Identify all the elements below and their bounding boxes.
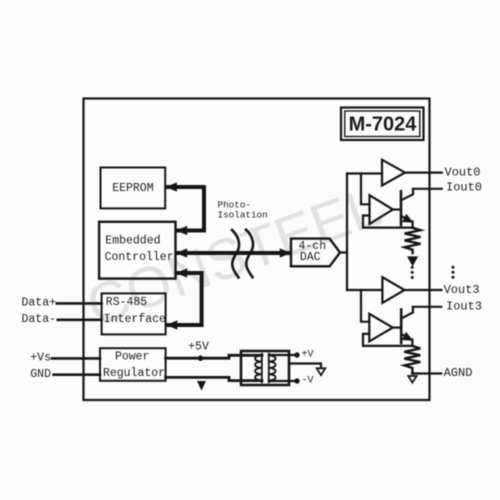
AGND wire <box>412 372 441 374</box>
svg-text:+5V: +5V <box>188 341 209 354</box>
svg-text:+Vs: +Vs <box>30 352 51 365</box>
svg-text:Embedded: Embedded <box>105 235 160 248</box>
-V terminal <box>294 378 299 383</box>
continuation dots under R0 <box>411 266 414 279</box>
center tap to analog ground <box>289 364 321 369</box>
transistor Q0 base bar <box>400 191 403 225</box>
svg-text:Regulator: Regulator <box>103 367 165 380</box>
DAC output rail <box>340 174 347 291</box>
Data+ label and wire <box>21 297 101 310</box>
core line left <box>261 354 263 383</box>
wire controller to RS-485 (bus) <box>166 268 202 329</box>
Q0 collector <box>401 189 413 201</box>
Q3 emitter with arrow <box>401 334 408 337</box>
ch0 current amp <box>370 195 394 224</box>
Q0 emitter with arrow <box>401 216 408 219</box>
ch0 input wire <box>347 172 382 174</box>
resistor R0 <box>405 228 421 253</box>
ch3 feedback wire <box>363 334 412 346</box>
svg-text:Isolation: Isolation <box>218 209 268 220</box>
ch3 amp to base wire <box>393 327 402 329</box>
svg-text:Interface: Interface <box>104 313 166 326</box>
isolation squiggle 1 <box>232 230 239 278</box>
transistor Q3 base bar <box>400 310 403 344</box>
core line right <box>268 354 270 383</box>
GND label and wire <box>30 368 100 381</box>
+Vs label and wire <box>30 352 100 365</box>
power wire return <box>166 377 262 380</box>
M-7024 label box <box>341 108 424 141</box>
RS-485 Interface box <box>102 293 166 334</box>
svg-text:Data-: Data- <box>21 313 56 326</box>
Data- label and wire <box>21 313 101 326</box>
svg-text:Power: Power <box>115 350 150 363</box>
ch3 current amp <box>369 314 392 342</box>
secondary leads <box>269 354 295 356</box>
Iout3 wire <box>413 306 441 308</box>
EEPROM box <box>101 168 166 209</box>
svg-text:Iout3: Iout3 <box>446 299 482 313</box>
primary winding <box>255 355 262 380</box>
ground arrow on return wire <box>197 381 206 391</box>
ch0 voltage buffer amp <box>382 160 405 186</box>
svg-text:-V: -V <box>302 375 314 386</box>
isolation squiggle 2 <box>246 230 253 278</box>
svg-text:GND: GND <box>30 368 51 381</box>
wire controller to DAC (bus) <box>176 248 292 257</box>
+V terminal <box>294 352 299 357</box>
Power Regulator box <box>100 348 166 381</box>
resistor R3 <box>404 346 420 374</box>
hollow ground arrow under R3 <box>408 376 416 383</box>
ch3 voltage buffer amp <box>382 277 404 303</box>
Q3 collector <box>401 307 413 319</box>
svg-text:AGND: AGND <box>444 366 473 380</box>
Embedded Controller box <box>99 222 175 279</box>
wire EEPROM to controller (bus) <box>165 182 204 235</box>
Vout3 wire <box>405 289 442 291</box>
ch0 tee down to current amp <box>361 174 370 205</box>
power wire +5V <box>166 355 262 358</box>
svg-text:Data+: Data+ <box>21 297 56 310</box>
svg-text:EEPROM: EEPROM <box>112 182 154 195</box>
svg-text:Vout0: Vout0 <box>445 165 481 179</box>
secondary winding <box>269 355 276 380</box>
svg-text:+V: +V <box>302 349 314 360</box>
svg-text:Controller: Controller <box>105 251 174 264</box>
svg-text:M-7024: M-7024 <box>349 114 418 136</box>
4-ch DAC block <box>291 239 340 267</box>
svg-text:DAC: DAC <box>300 251 321 264</box>
Photo-Isolation label <box>218 199 268 220</box>
ch3 input wire <box>347 289 382 291</box>
ch0 feedback wire <box>363 216 413 228</box>
frame border <box>84 99 430 401</box>
down arrow under R0 <box>408 257 416 265</box>
DC-DC transformer box <box>241 351 295 385</box>
junction dot +5V <box>198 355 204 361</box>
svg-text:Iout0: Iout0 <box>446 181 482 195</box>
Vout0 wire <box>405 172 442 174</box>
ch3 tee down to current amp <box>361 290 369 322</box>
svg-text:Vout3: Vout3 <box>444 283 480 297</box>
svg-text:RS-485: RS-485 <box>106 296 148 309</box>
continuation dots near Vout3 <box>452 266 455 279</box>
Iout0 wire <box>413 188 442 190</box>
output labels <box>444 165 482 380</box>
hollow ground arrow <box>317 368 326 375</box>
ch0 amp to base wire <box>393 208 401 210</box>
